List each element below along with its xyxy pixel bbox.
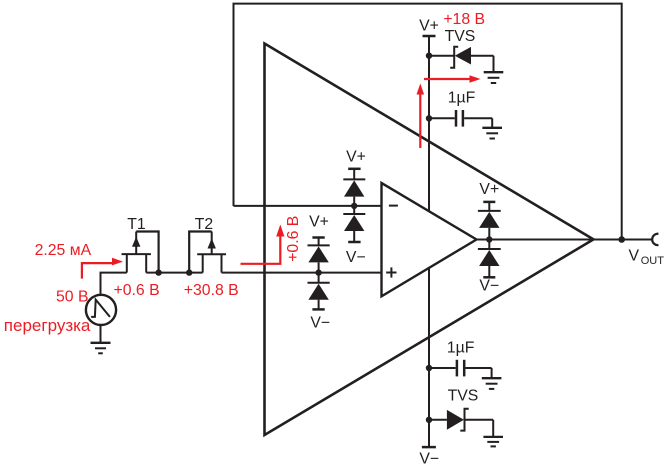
wire V+ to V- supply rail [428,36,430,447]
svg-text:TVS: TVS [448,388,479,405]
svg-text:1µF: 1µF [448,89,476,106]
annotation arrow through TVS1 [424,75,481,83]
op-amp U1 (main amplifier triangle) [265,44,594,436]
diode clamp pair D1 on inverting input [343,148,366,266]
pin plus of U2 [386,272,396,274]
ground C1 [482,128,502,139]
svg-text:+30.8 В: +30.8 В [184,282,239,299]
annotation arrow +0.6 V rising [241,225,285,264]
node output terminal [652,234,658,245]
capacitor C1 (top 1uF) [429,110,492,127]
node junction T1-T2 [155,269,161,275]
svg-text:+18 В: +18 В [443,11,485,28]
svg-text:перегрузка: перегрузка [4,316,91,335]
node V+ terminal bar [423,35,436,38]
wire feedback to inverting input [234,205,382,207]
node junction TVS1 [426,53,432,59]
annotation arrow into T1 [82,258,123,279]
svg-text:1µF: 1µF [447,340,475,357]
node junction D1 [351,203,357,209]
svg-text:Т2: Т2 [195,216,213,233]
transistor T2 [189,232,226,273]
diode clamp pair D2 on noninverting input [308,214,331,332]
svg-text:TVS: TVS [445,28,476,45]
node junction C1 [426,115,432,121]
svg-text:+0.6 В: +0.6 В [114,282,160,299]
ground C2 [482,378,502,389]
svg-text:V: V [629,248,640,265]
svg-text:V−: V− [346,249,366,266]
svg-text:V+: V+ [309,214,329,231]
wire feedback loop (output up, across top, down left) [234,4,622,240]
diode TVS2 (bottom, V- to ground) [429,409,493,436]
node V- terminal bar [422,446,436,449]
svg-text:Т1: Т1 [127,216,146,233]
svg-text:V−: V− [479,278,499,295]
svg-text:V+: V+ [346,148,366,165]
node junction TVS2 [426,417,432,423]
node output junction [618,236,625,243]
node junction D2 [315,269,321,275]
svg-text:OUT: OUT [641,255,665,267]
svg-text:+0.6 В: +0.6 В [285,216,302,262]
annotation arrow up along rail [417,84,425,149]
diode clamp pair D3 on output stage input [478,181,501,295]
wire source to T1 drain [101,273,127,295]
ground TVS1 [484,72,504,83]
wire U2 output to terminal [477,239,653,241]
svg-text:V+: V+ [479,181,499,198]
node junction T2 gate tie [186,269,192,275]
transistor T1 [122,232,159,273]
ground TVS2 [483,437,503,447]
svg-text:2.25 мА: 2.25 мА [35,242,92,259]
svg-text:V−: V− [419,450,439,467]
ground under source [91,343,111,354]
pin minus of U2 [389,205,398,207]
wire T2 source to noninverting input [222,272,382,274]
diode TVS1 (top, V+ to ground) [429,47,494,71]
svg-text:50 В: 50 В [56,289,89,306]
capacitor C2 (bottom 1uF) [429,360,492,378]
svg-text:V−: V− [310,314,330,331]
node junction C2 [426,365,432,371]
node junction D3 [486,236,492,242]
op-amp U2 (input stage triangle) [382,183,477,296]
svg-text:V+: V+ [419,18,439,35]
wire T1 source to T2 [146,272,203,274]
source G1 (surge generator) [86,295,116,343]
